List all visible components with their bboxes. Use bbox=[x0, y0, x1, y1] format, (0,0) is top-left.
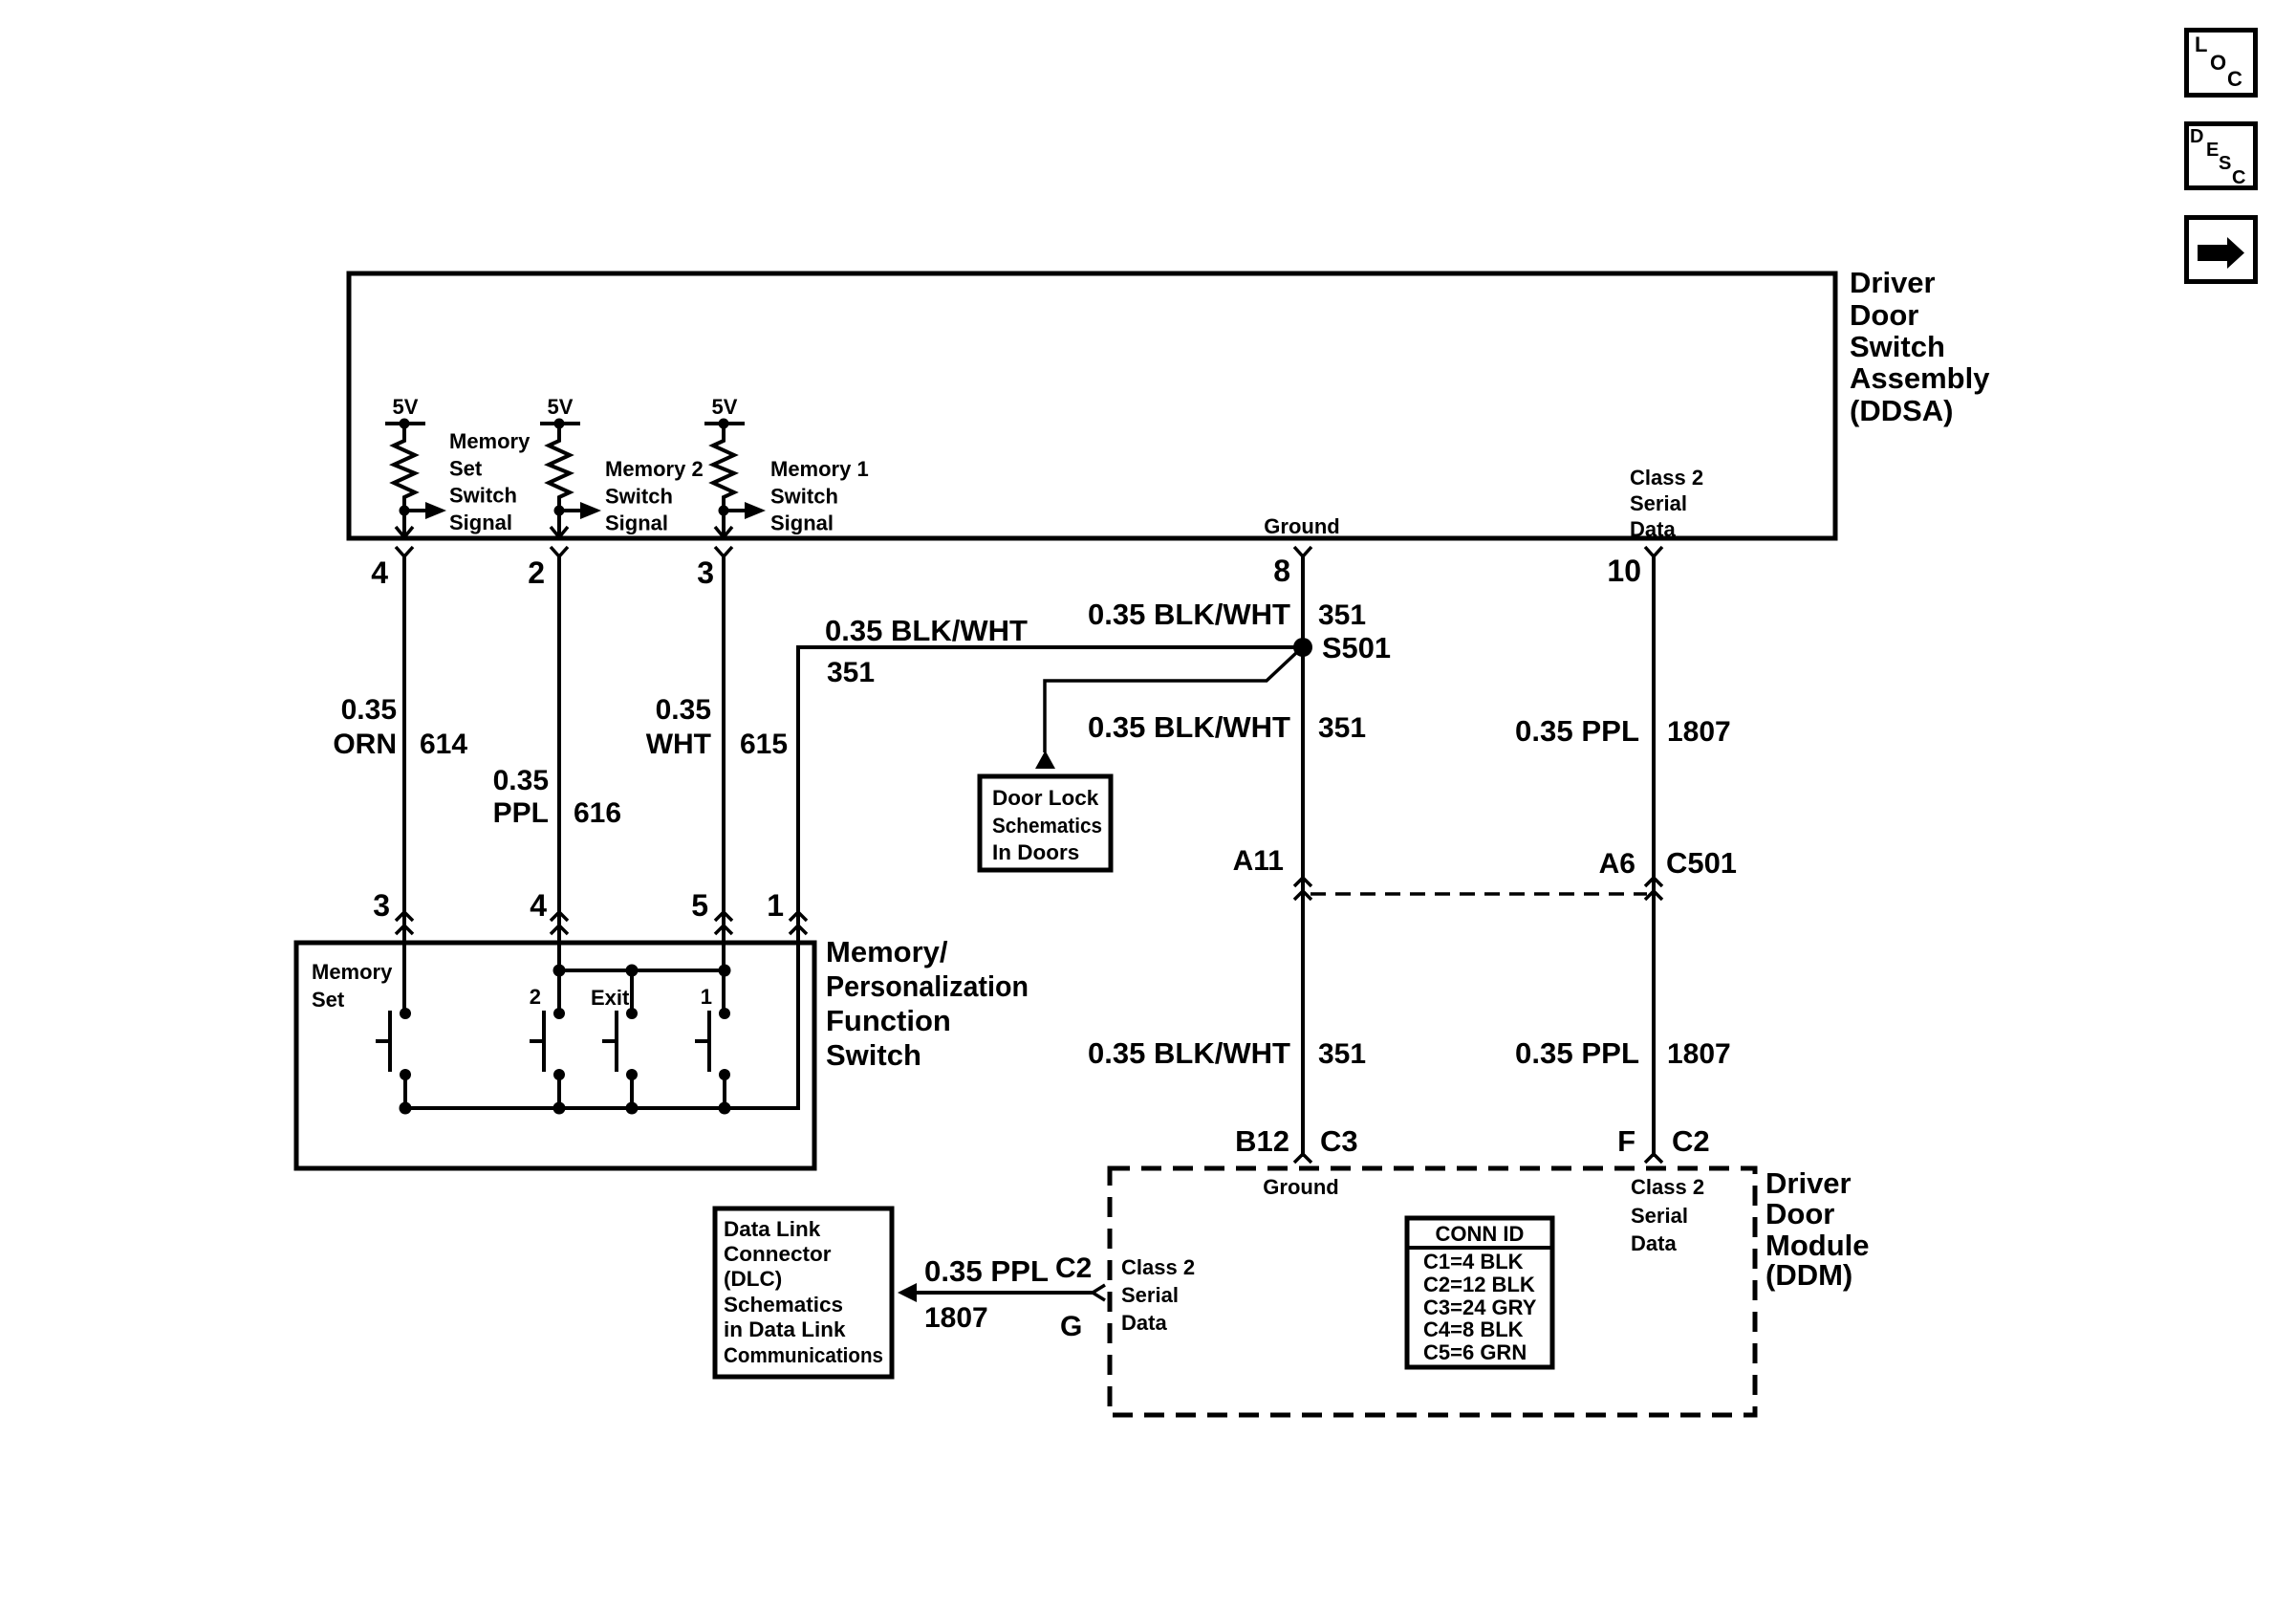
svg-text:Signal: Signal bbox=[770, 512, 834, 535]
wire label 0.35 PPL 1807 (upper) bbox=[1515, 714, 1731, 748]
label: Class 2 Serial Data (DDM) bbox=[1631, 1175, 1704, 1255]
svg-text:Personalization: Personalization bbox=[826, 969, 1029, 1003]
svg-text:Class 2: Class 2 bbox=[1121, 1255, 1195, 1279]
5V supply label (branch pin 3) bbox=[712, 395, 738, 419]
junction dot at 5V bar bbox=[719, 419, 729, 429]
label S501 bbox=[1322, 631, 1391, 664]
svg-text:1807: 1807 bbox=[1667, 1038, 1731, 1070]
svg-text:0.35: 0.35 bbox=[656, 694, 711, 726]
wire label 0.35 PPL 1807 (DLC) bbox=[924, 1254, 1049, 1334]
svg-text:Switch: Switch bbox=[605, 484, 673, 508]
svg-text:CONN ID: CONN ID bbox=[1436, 1222, 1525, 1246]
resistor (pull-up, pin 4) bbox=[394, 424, 415, 511]
svg-text:Set: Set bbox=[312, 988, 345, 1012]
connector pin F / C2 at DDM bbox=[1617, 1124, 1710, 1163]
svg-text:Serial: Serial bbox=[1630, 491, 1687, 515]
junction dot on bottom rail bbox=[626, 1102, 639, 1115]
wire label 0.35 BLK/WHT 351 (below S501) bbox=[1088, 710, 1366, 744]
svg-text:F: F bbox=[1617, 1124, 1635, 1158]
svg-text:Schematics: Schematics bbox=[992, 814, 1102, 838]
wire pin1 inside box bbox=[405, 943, 798, 1108]
svg-text:0.35 BLK/WHT: 0.35 BLK/WHT bbox=[1088, 710, 1290, 744]
internal rail (top) bbox=[559, 969, 725, 972]
svg-text:E: E bbox=[2206, 140, 2219, 161]
junction dot below resistor bbox=[554, 506, 565, 516]
svg-text:Module: Module bbox=[1765, 1229, 1870, 1262]
svg-text:A11: A11 bbox=[1233, 845, 1284, 877]
label: Memory 1 Switch Signal bbox=[770, 457, 869, 535]
svg-text:G: G bbox=[1060, 1311, 1082, 1342]
connector pin 10 at DDSA bbox=[1607, 547, 1662, 588]
legend box DESC bbox=[2187, 124, 2256, 189]
connector C501 pin A11 bbox=[1233, 845, 1311, 900]
wire label 0.35 WHT 615 bbox=[646, 694, 788, 760]
connector pin 3 at memory switch box bbox=[373, 888, 413, 934]
Driver Door Switch Assembly (DDSA) box bbox=[349, 273, 1835, 538]
svg-text:Data: Data bbox=[1121, 1311, 1167, 1335]
svg-text:(DDM): (DDM) bbox=[1765, 1258, 1852, 1292]
svg-text:Memory: Memory bbox=[449, 429, 531, 453]
svg-text:Serial: Serial bbox=[1631, 1204, 1688, 1228]
svg-text:Ground: Ground bbox=[1263, 1175, 1338, 1199]
svg-text:Set: Set bbox=[449, 456, 483, 480]
svg-text:5: 5 bbox=[691, 888, 708, 923]
svg-text:WHT: WHT bbox=[646, 729, 711, 760]
svg-text:Switch: Switch bbox=[449, 484, 517, 508]
svg-text:Memory 2: Memory 2 bbox=[605, 457, 704, 481]
junction dot on bottom rail bbox=[400, 1102, 412, 1115]
svg-text:3: 3 bbox=[373, 888, 390, 923]
svg-text:Schematics: Schematics bbox=[724, 1293, 843, 1317]
wire label 0.35 BLK/WHT 351 (above S501) bbox=[1088, 598, 1366, 631]
signal arrow to label bbox=[724, 502, 766, 519]
label: Memory Set bbox=[312, 960, 393, 1012]
signal arrow to label bbox=[404, 502, 446, 519]
svg-text:in Data Link: in Data Link bbox=[724, 1317, 846, 1341]
svg-text:Class 2: Class 2 bbox=[1631, 1175, 1704, 1199]
svg-text:Data: Data bbox=[1631, 1231, 1677, 1255]
svg-text:Switch: Switch bbox=[1850, 330, 1945, 363]
data link connector (DLC) reference box bbox=[715, 1208, 892, 1377]
connector pin 4 at DDSA bbox=[371, 547, 413, 590]
class 2 serial data wire 1807 (DDSA pin 10 to DDM) bbox=[1652, 556, 1656, 1157]
svg-text:1: 1 bbox=[767, 888, 784, 923]
connector pin 4 at memory switch box bbox=[530, 888, 568, 934]
junction dot on bottom rail bbox=[719, 1102, 731, 1115]
switch: memory 1 bbox=[695, 985, 730, 1108]
svg-text:Door Lock: Door Lock bbox=[992, 786, 1099, 810]
svg-text:5V: 5V bbox=[712, 395, 738, 419]
resistor (pull-up, pin 2) bbox=[549, 424, 570, 511]
switch: Memory Set bbox=[376, 1008, 411, 1108]
svg-text:351: 351 bbox=[1318, 599, 1366, 631]
label: Class 2 Serial Data (DLC side) bbox=[1121, 1255, 1195, 1335]
arrowhead at DDSA edge bbox=[396, 527, 413, 537]
svg-text:4: 4 bbox=[530, 888, 547, 923]
svg-text:Memory: Memory bbox=[312, 960, 393, 984]
svg-text:Class 2: Class 2 bbox=[1630, 466, 1703, 490]
label: Driver Door Module (DDM) bbox=[1765, 1166, 1870, 1292]
junction dot at 5V bar bbox=[554, 419, 565, 429]
wire from resistor to DDSA edge bbox=[722, 511, 726, 537]
svg-text:0.35: 0.35 bbox=[341, 694, 397, 726]
svg-text:351: 351 bbox=[1318, 712, 1366, 744]
svg-text:614: 614 bbox=[420, 729, 467, 760]
wire x=585 DDSA to memory switch bbox=[557, 556, 561, 1013]
svg-text:(DDSA): (DDSA) bbox=[1850, 394, 1954, 427]
svg-text:2: 2 bbox=[530, 985, 541, 1009]
svg-text:C501: C501 bbox=[1666, 846, 1737, 880]
svg-text:C2=12 BLK: C2=12 BLK bbox=[1423, 1273, 1535, 1296]
label: Class 2 Serial Data (DDSA pin 10) bbox=[1630, 466, 1703, 541]
wire x=423 DDSA to memory switch bbox=[402, 556, 406, 1013]
label: Memory Set Switch Signal bbox=[449, 429, 531, 534]
door lock schematics reference box bbox=[980, 776, 1111, 870]
wire from resistor to DDSA edge bbox=[402, 511, 406, 537]
5V supply bar bbox=[704, 422, 745, 425]
svg-text:0.35 BLK/WHT: 0.35 BLK/WHT bbox=[1088, 1036, 1290, 1070]
connector pin 2 at DDSA bbox=[528, 547, 568, 590]
svg-text:Memory 1: Memory 1 bbox=[770, 457, 869, 481]
5V supply label (branch pin 4) bbox=[393, 395, 419, 419]
pin label C2 (DDM to DLC) bbox=[1055, 1252, 1092, 1284]
svg-text:In Doors: In Doors bbox=[992, 840, 1079, 864]
switch: memory 2 bbox=[530, 985, 565, 1108]
svg-text:351: 351 bbox=[827, 657, 875, 688]
connector C501 pin A6 bbox=[1599, 848, 1662, 900]
svg-text:0.35: 0.35 bbox=[493, 765, 549, 796]
svg-text:615: 615 bbox=[740, 729, 788, 760]
Driver Door Module (DDM) dashed box bbox=[1110, 1168, 1755, 1415]
svg-text:0.35 BLK/WHT: 0.35 BLK/WHT bbox=[1088, 598, 1290, 631]
svg-text:ORN: ORN bbox=[333, 729, 397, 760]
svg-text:Driver: Driver bbox=[1765, 1166, 1852, 1200]
wire label 0.35 PPL 1807 (lower) bbox=[1515, 1036, 1731, 1070]
switch: Exit bbox=[591, 986, 638, 1108]
junction dot on top rail bbox=[553, 965, 566, 977]
svg-text:Exit: Exit bbox=[591, 986, 630, 1010]
dashed connector line C501 bbox=[1310, 892, 1647, 896]
junction dot on top rail bbox=[719, 965, 731, 977]
svg-text:C1=4 BLK: C1=4 BLK bbox=[1423, 1250, 1524, 1274]
legend box LOC bbox=[2187, 31, 2256, 96]
svg-text:1: 1 bbox=[701, 985, 712, 1009]
svg-text:3: 3 bbox=[697, 555, 714, 590]
svg-text:Connector: Connector bbox=[724, 1242, 832, 1266]
svg-text:D: D bbox=[2190, 126, 2203, 147]
svg-text:Data Link: Data Link bbox=[724, 1217, 821, 1241]
svg-text:Door: Door bbox=[1850, 298, 1918, 332]
label: Ground (DDM) bbox=[1263, 1175, 1338, 1199]
svg-text:Switch: Switch bbox=[770, 484, 838, 508]
svg-text:C3=24 GRY: C3=24 GRY bbox=[1423, 1295, 1537, 1319]
svg-text:Data: Data bbox=[1630, 517, 1676, 541]
arrowhead at DDSA edge bbox=[551, 527, 568, 537]
wire 1807 to DLC with arrow bbox=[898, 1283, 1105, 1302]
label: Memory/ Personalization Function Switch bbox=[826, 935, 1029, 1072]
connector pin 3 at DDSA bbox=[697, 547, 732, 590]
svg-text:10: 10 bbox=[1607, 554, 1641, 588]
svg-text:0.35 BLK/WHT: 0.35 BLK/WHT bbox=[825, 614, 1028, 647]
svg-text:Door: Door bbox=[1765, 1197, 1834, 1230]
svg-text:C4=8 BLK: C4=8 BLK bbox=[1423, 1317, 1524, 1341]
svg-text:Assembly: Assembly bbox=[1850, 361, 1990, 395]
connector pin B12 / C3 at DDM bbox=[1235, 1124, 1358, 1163]
junction dot at 5V bar bbox=[400, 419, 410, 429]
junction dot on top rail bbox=[626, 965, 639, 977]
svg-text:C: C bbox=[2232, 167, 2245, 188]
svg-text:C2: C2 bbox=[1055, 1252, 1092, 1284]
wire label 0.35 ORN 614 bbox=[333, 694, 467, 760]
resistor (pull-up, pin 3) bbox=[713, 424, 734, 511]
label C501 bbox=[1666, 846, 1737, 880]
splice S501 dot bbox=[1293, 638, 1312, 657]
CONN ID table bbox=[1407, 1218, 1552, 1367]
off-page arrow to door lock box bbox=[1035, 751, 1055, 769]
svg-text:Communications: Communications bbox=[724, 1343, 883, 1367]
junction dot below resistor bbox=[400, 506, 410, 516]
legend box forward arrow bbox=[2187, 218, 2256, 282]
svg-text:616: 616 bbox=[574, 797, 621, 829]
svg-text:351: 351 bbox=[1318, 1038, 1366, 1070]
5V supply bar bbox=[540, 422, 580, 425]
label: Ground (DDSA pin 8) bbox=[1264, 514, 1339, 538]
label: Memory 2 Switch Signal bbox=[605, 457, 704, 535]
svg-text:8: 8 bbox=[1273, 554, 1290, 588]
svg-text:A6: A6 bbox=[1599, 848, 1635, 880]
junction dot below resistor bbox=[719, 506, 729, 516]
wire exit column bbox=[630, 970, 634, 1013]
memory/personalization function switch box bbox=[296, 943, 814, 1168]
svg-text:C3: C3 bbox=[1320, 1124, 1358, 1158]
connector pin 5 at memory switch box bbox=[691, 888, 732, 934]
wire label 0.35 BLK/WHT 351 (horizontal run) bbox=[825, 614, 1028, 688]
svg-text:5V: 5V bbox=[393, 395, 419, 419]
pin label G (DDM to DLC) bbox=[1060, 1311, 1082, 1342]
svg-text:0.35 PPL: 0.35 PPL bbox=[924, 1254, 1049, 1288]
5V supply bar bbox=[385, 422, 425, 425]
svg-text:Switch: Switch bbox=[826, 1038, 921, 1072]
svg-text:Signal: Signal bbox=[605, 512, 668, 535]
svg-text:Signal: Signal bbox=[449, 511, 512, 534]
label: Driver Door Switch Assembly (DDSA) bbox=[1850, 266, 1990, 427]
svg-text:C: C bbox=[2227, 67, 2242, 91]
svg-text:2: 2 bbox=[528, 555, 545, 590]
wire from resistor to DDSA edge bbox=[557, 511, 561, 537]
svg-text:Memory/: Memory/ bbox=[826, 935, 948, 969]
svg-text:O: O bbox=[2210, 51, 2226, 75]
svg-text:PPL: PPL bbox=[493, 797, 549, 829]
ground wire 351 (DDSA pin 8 to DDM) bbox=[1301, 556, 1305, 1157]
wire x=757 DDSA to memory switch bbox=[722, 556, 726, 1013]
svg-text:S501: S501 bbox=[1322, 631, 1391, 664]
signal arrow to label bbox=[559, 502, 601, 519]
svg-text:1807: 1807 bbox=[924, 1302, 988, 1334]
svg-text:C2: C2 bbox=[1672, 1124, 1710, 1158]
svg-text:S: S bbox=[2219, 153, 2231, 174]
svg-text:Driver: Driver bbox=[1850, 266, 1936, 299]
wire 351 from splice to memory switch pin 1 bbox=[798, 647, 1303, 943]
arrowhead at DDSA edge bbox=[715, 527, 732, 537]
svg-text:4: 4 bbox=[371, 555, 388, 590]
connector pin 8 at DDSA bbox=[1273, 547, 1311, 588]
svg-text:0.35 PPL: 0.35 PPL bbox=[1515, 714, 1639, 748]
wire pin5 into switch 1 column bbox=[722, 943, 726, 1013]
svg-text:L: L bbox=[2195, 33, 2207, 56]
svg-text:Ground: Ground bbox=[1264, 514, 1339, 538]
svg-text:(DLC): (DLC) bbox=[724, 1267, 782, 1291]
svg-text:1807: 1807 bbox=[1667, 716, 1731, 748]
wire label 0.35 PPL 616 bbox=[493, 765, 621, 829]
svg-text:Serial: Serial bbox=[1121, 1283, 1179, 1307]
svg-text:5V: 5V bbox=[548, 395, 574, 419]
svg-text:Function: Function bbox=[826, 1004, 951, 1037]
connector pin 1 at memory switch box bbox=[767, 888, 807, 934]
svg-text:0.35 PPL: 0.35 PPL bbox=[1515, 1036, 1639, 1070]
5V supply label (branch pin 2) bbox=[548, 395, 574, 419]
svg-text:C5=6 GRN: C5=6 GRN bbox=[1423, 1340, 1527, 1364]
junction dot on bottom rail bbox=[553, 1102, 566, 1115]
svg-text:B12: B12 bbox=[1235, 1124, 1289, 1158]
wire stub to door lock schematics bbox=[1045, 652, 1297, 752]
wire label 0.35 BLK/WHT 351 (lower) bbox=[1088, 1036, 1366, 1070]
